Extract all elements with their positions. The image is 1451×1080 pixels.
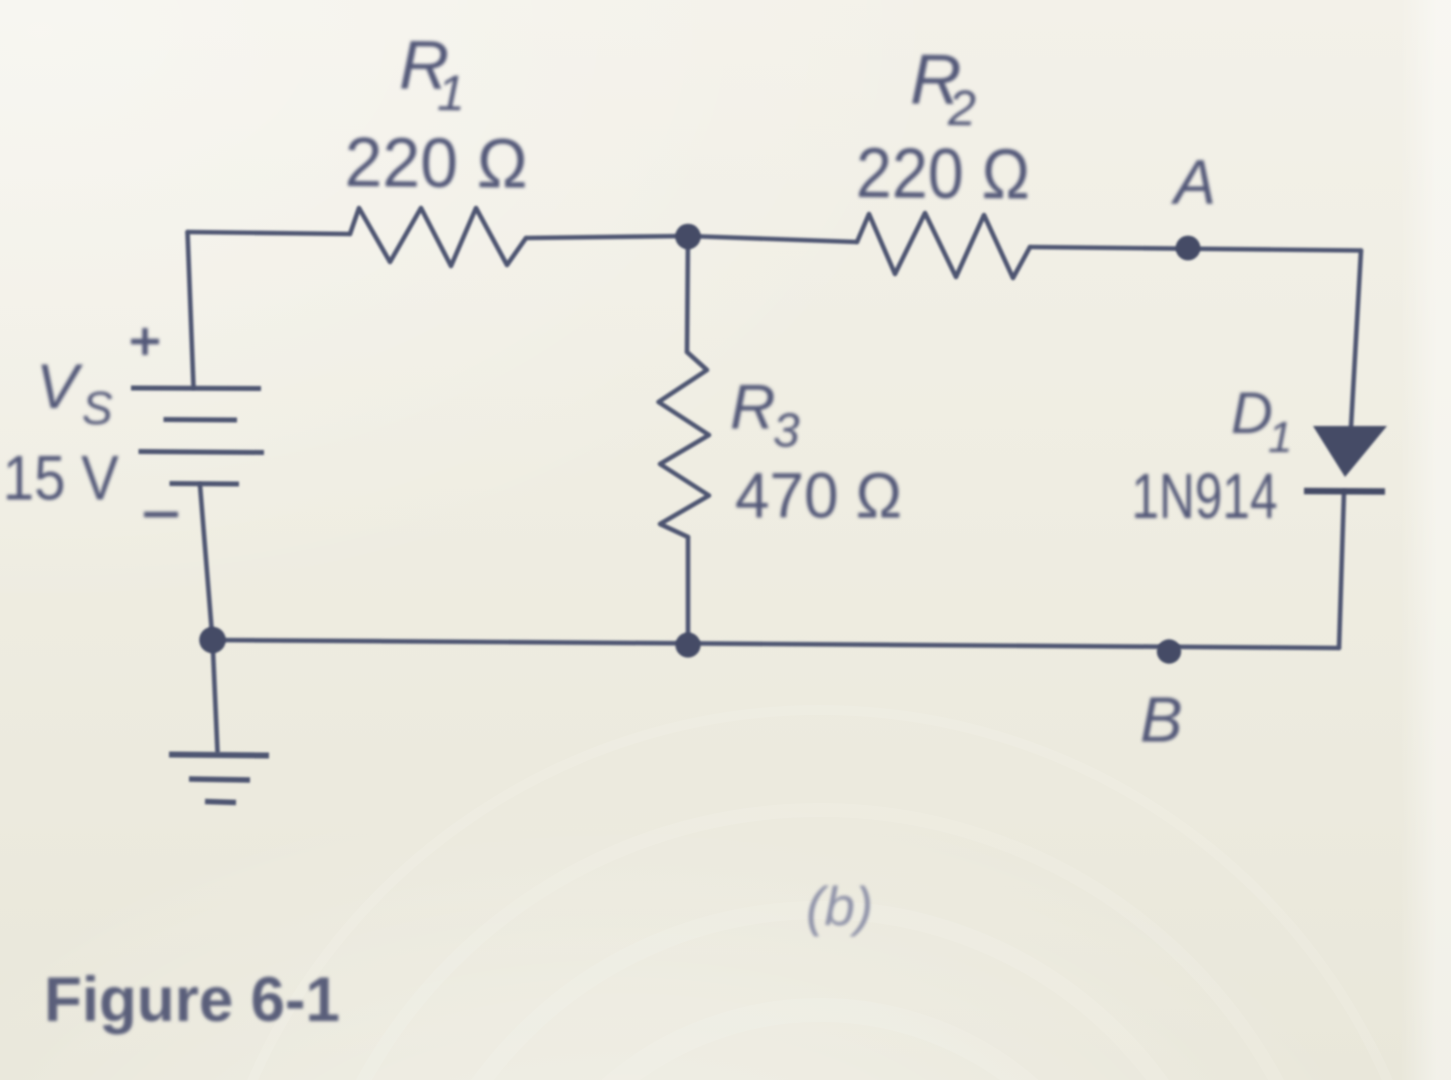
ground: [169, 755, 269, 803]
svg-text:3: 3: [773, 405, 800, 458]
svg-text:S: S: [82, 382, 113, 434]
svg-text:470 Ω: 470 Ω: [735, 460, 902, 532]
battery VS plates: [131, 388, 264, 484]
svg-text:V: V: [36, 352, 83, 422]
svg-text:(b): (b): [806, 875, 873, 937]
wire R3 bottom lead: [686, 537, 691, 645]
resistor R2: [857, 213, 1030, 278]
wire junction to ground: [213, 640, 218, 752]
plus sign: [131, 328, 159, 355]
node middle top: [675, 224, 701, 250]
svg-text:Figure 6-1: Figure 6-1: [44, 965, 340, 1035]
svg-text:2: 2: [947, 80, 976, 136]
wire middle node to R2: [688, 236, 857, 242]
wire R3 top lead: [687, 236, 688, 352]
wire battery to bottom junction: [200, 485, 213, 640]
svg-text:B: B: [1140, 684, 1183, 756]
wire bottom horizontal: [213, 640, 1340, 648]
wire diode to bottom right corner: [1339, 492, 1344, 648]
node A dot: [1176, 236, 1201, 261]
minus sign: [144, 512, 178, 518]
svg-text:220 Ω: 220 Ω: [344, 123, 528, 203]
svg-text:15 V: 15 V: [3, 443, 119, 513]
wire R1 to middle node: [526, 236, 688, 238]
svg-text:R: R: [730, 373, 776, 443]
svg-text:D: D: [1231, 381, 1273, 446]
wire top-left horizontal: [188, 232, 351, 234]
resistor R3: [659, 352, 710, 537]
svg-text:1N914: 1N914: [1132, 460, 1278, 532]
wire right vertical to diode: [1351, 251, 1361, 428]
resistor R1: [350, 208, 526, 266]
moire arcs backdrop: [200, 710, 1440, 1080]
svg-text:1: 1: [1268, 413, 1292, 462]
svg-text:1: 1: [437, 65, 465, 121]
node bottom left: [199, 627, 226, 654]
node B dot: [1157, 639, 1181, 663]
svg-text:220 Ω: 220 Ω: [856, 134, 1031, 215]
wire left vertical top: [188, 232, 194, 387]
diode D1: [1304, 426, 1387, 492]
node bottom middle: [675, 632, 700, 657]
wire R2 to node A and right corner: [1030, 247, 1361, 251]
svg-text:A: A: [1170, 148, 1216, 218]
